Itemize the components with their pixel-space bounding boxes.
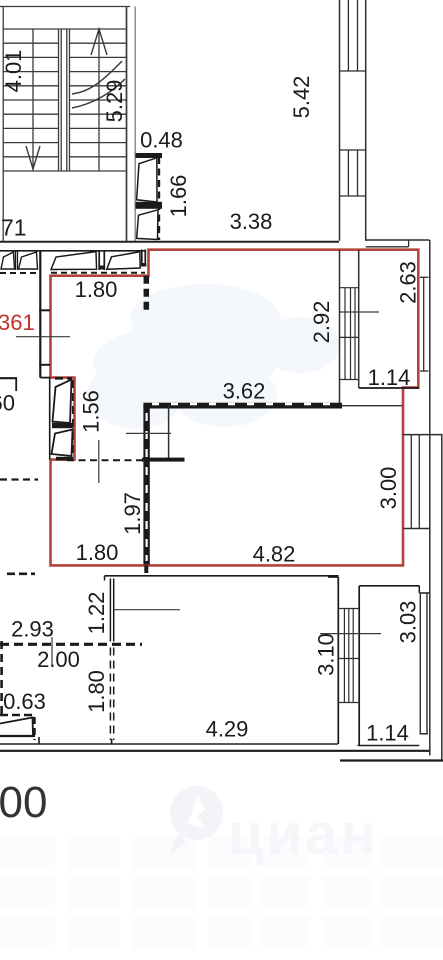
svg-text:2.00: 2.00 [37,647,80,672]
lower right wall jamb [418,586,420,593]
stair steps left flight [3,43,58,157]
neighbour closet door leaf 1 [1,252,15,269]
wall below loggia [342,405,402,407]
cian watermark pin [170,786,223,854]
lower flat top wall [105,575,339,577]
svg-text:0.48: 0.48 [140,128,183,153]
lower window column top left wall [328,576,338,578]
svg-text:2.92: 2.92 [309,301,334,344]
leader line 1.22 [114,609,180,611]
wall left edge of stairwell [2,7,4,242]
storage door leaf lower [137,210,158,240]
hall closet top wall [0,250,146,252]
lower bay glass lines [420,593,427,734]
outer bay wall right face [429,240,431,756]
facade wall right face [365,0,367,241]
leader vertical hallway [98,440,100,483]
svg-text:1.56: 1.56 [79,390,104,433]
wall jamb above loggia [408,240,410,247]
stair down arrow head [26,146,40,169]
wall 1.97 band [143,405,149,565]
bay window 3.00 glass lines [411,435,419,529]
right box bottom line [358,745,420,747]
lower window column right face [358,586,360,746]
svg-text:4.01: 4.01 [1,50,26,93]
hall closet divider bottom bar [99,266,105,270]
building bottom right dark line [340,759,443,761]
storage middle bar [136,202,162,208]
svg-text:2.60: 2.60 [0,391,15,416]
leader line 3.10 [320,633,381,635]
bath top wall thin [67,459,143,461]
niche dashed jamb [72,380,74,458]
hallway wall stub dashed [144,276,150,314]
storage dashed jamb line [158,157,160,240]
svg-text:5.29: 5.29 [102,80,127,123]
hall closet door leaf 1 [51,252,97,270]
neighbour room wall tick [15,378,17,391]
building bottom thin line [0,743,338,745]
window right wall 2.63 [420,277,429,371]
facade window divider 3 [340,195,366,197]
svg-text:71: 71 [1,215,27,241]
stair direction curve upper [72,61,122,94]
svg-text:3.00: 3.00 [376,467,401,510]
neighbour closet dashed front [0,272,40,274]
lower flat wall 1.80 [110,648,113,741]
watermark cloud [87,284,340,429]
building bottom tick 2 [111,739,113,744]
wall 1.97 lower tick [144,565,148,573]
neighbour left wall [39,251,41,378]
neighbour dashed wall lower [0,478,38,480]
loggia bottom wall [359,387,419,389]
lower window column left face [337,577,339,744]
svg-text:4.29: 4.29 [206,717,249,742]
stair direction curve lower [72,79,125,108]
svg-text:1.97: 1.97 [120,492,145,535]
facade wall left face [339,0,341,241]
hall closet right divider [142,250,146,267]
building bottom tick 1 [38,737,40,744]
niche wardrobe back line [49,378,51,460]
niche wardrobe door leaf upper [53,380,72,424]
bay outer face far right [441,435,443,761]
interior window 2.92 [340,288,359,380]
neighbour wall tick lower [39,364,50,366]
hall closet divider [99,251,104,270]
bay window top cap [403,434,443,436]
svg-text:3.62: 3.62 [223,379,266,404]
svg-text:1.22: 1.22 [84,592,109,635]
svg-text:3.03: 3.03 [396,601,421,644]
svg-text:3.38: 3.38 [230,209,273,234]
lower wardrobe bottom [0,735,35,737]
hall storage door 1.66 [136,154,162,241]
stair flight divider right / up arrow shaft [98,29,100,171]
lower wardrobe dashed top [0,714,35,716]
lower wardrobe right jamb [33,717,35,740]
svg-text:1.14: 1.14 [366,721,409,746]
svg-text:5.42: 5.42 [289,76,314,119]
niche wardrobe bottom bar [56,457,73,461]
corridor bottom wall [0,241,339,243]
stairwell group [0,7,130,242]
lower flat dashed wall left edge [0,641,3,714]
upper facade wall column [340,0,366,241]
wall 3.62 band dashes [152,403,330,406]
svg-text:4.82: 4.82 [253,542,296,567]
wall top edge of stairwell [0,6,130,8]
neighbour wall tick upper [39,309,50,311]
lower bay window cap [420,733,429,735]
svg-text:1.14: 1.14 [368,365,411,390]
apartment red outline [51,250,419,566]
lower window 3.10 [338,609,359,703]
hall closet dashed front [51,272,145,274]
lower flat dashed wall horizontal [0,643,142,646]
svg-text:циан: циан [228,802,379,867]
niche wardrobe middle bar [52,423,73,428]
niche wardrobe top dash [55,377,72,380]
facade window 5.42 glass lines lower [348,150,357,196]
storage door leaf upper [137,158,157,202]
stair up arrow head [91,29,107,55]
neighbour closet divider [16,251,18,270]
svg-text:2.63: 2.63 [396,261,421,304]
watermark lattice [0,836,443,950]
storage top bar [136,154,162,158]
neighbour closet door leaf 2 [19,252,38,269]
svg-text:3.10: 3.10 [314,633,339,676]
leader line 2.63 room [340,311,379,313]
stair bottom landing line [3,170,126,172]
svg-text:1.66: 1.66 [166,175,191,218]
door jamb line [168,405,170,459]
bath top wall thick bar [142,458,185,462]
facade window divider 1 [340,70,366,72]
svg-text:1.80: 1.80 [84,670,109,713]
leader line 361 [16,336,70,338]
stair central wall double lines [59,29,70,171]
stair steps right flight [70,43,127,157]
wall 3.62 band [143,403,342,409]
wall above loggia [366,239,430,241]
wall right edge of stairwell [126,7,128,242]
lower wardrobe door leaf [0,718,33,736]
wall 1.97 band dashes [146,413,148,561]
lower right wall horizontal [359,585,419,587]
svg-text:1.80: 1.80 [76,540,119,565]
top right corner walls [366,240,430,756]
stair top landing line [3,28,126,30]
svg-text:361: 361 [0,310,35,335]
lower flat wall 1.22 [110,579,113,642]
interior window wall left face [339,250,341,403]
facade window divider 2 [340,149,366,151]
svg-text:0.63: 0.63 [3,689,46,714]
lower right wall step [419,592,430,594]
facade window 5.42 glass lines upper [348,0,357,71]
wall inner line above loggia [366,246,409,248]
hall closet door leaf 2 [107,252,140,269]
svg-text:1.80: 1.80 [75,277,118,302]
bay window bottom cap [404,528,431,530]
corridor wall gray line [134,7,136,242]
leader cross horizontal [126,432,171,434]
lower flat dashed wall 2.93 [7,572,35,575]
interior window wall right face [358,250,360,388]
neighbour room wall [0,377,17,379]
svg-text:00: 00 [0,778,47,827]
leader line 2.00 [51,637,53,666]
hall closet right divider bar [141,263,146,267]
niche wardrobe door leaf lower [52,430,73,457]
lower flat top wall tick [104,576,106,581]
stair flight divider left [32,29,34,171]
svg-text:2.93: 2.93 [11,617,54,642]
building bottom thick line [0,750,430,752]
neighbour niche top extension [40,377,50,379]
